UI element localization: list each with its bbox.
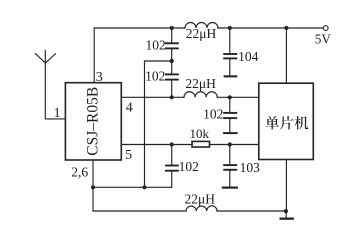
svg-text:4: 4 (126, 101, 133, 116)
capacitor C6 end bar (222, 187, 238, 189)
junction node C1-C2 (170, 59, 174, 63)
capacitor C3 104 leads (229, 28, 231, 75)
junction node gnd bus mid (142, 185, 146, 189)
junction node gnd rail MCU (284, 209, 288, 213)
capacitor C4 102 right leads (229, 97, 231, 132)
svg-text:22μH: 22μH (185, 191, 216, 206)
wire pin 2,6 drop (92, 160, 94, 211)
inductor L1 humps (185, 23, 218, 29)
antenna (35, 50, 65, 119)
wire bottom rail (93, 210, 286, 212)
capacitor C1 102 leads (171, 28, 173, 61)
junction node pin5-C6 (228, 142, 232, 146)
wire MCU ground drop (285, 160, 287, 212)
svg-text:5V: 5V (315, 32, 332, 47)
junction node pin4-C2 (170, 95, 174, 99)
inductor L3 humps (186, 206, 217, 211)
capacitor C1 plates (165, 42, 179, 44)
capacitor C3 end bar (224, 75, 238, 77)
IC U2 MCU box (259, 83, 314, 159)
junction node rail-MCU (284, 26, 288, 30)
ground bar (280, 218, 294, 220)
capacitor C2 plates (165, 73, 179, 75)
svg-text:5: 5 (125, 148, 132, 163)
svg-text:22μH: 22μH (185, 76, 216, 91)
svg-text:104: 104 (238, 49, 259, 64)
wire top 5V rail (94, 27, 323, 29)
capacitor C5 plates (165, 165, 179, 167)
capacitor C6 plates (223, 164, 237, 166)
capacitor C6 103 leads (229, 145, 231, 187)
junction node rail-C1 (170, 26, 174, 30)
svg-text:22μH: 22μH (186, 26, 217, 41)
wire mid vertical (144, 61, 146, 187)
label U2 name MCU chinese (265, 116, 308, 130)
junction node gnd bus left (91, 185, 95, 189)
ground stub (285, 211, 287, 218)
svg-text:102: 102 (145, 69, 165, 84)
inductor L2 humps (184, 92, 217, 98)
junction node pin5-C5 (170, 142, 174, 146)
junction node rail-C3 (228, 26, 232, 30)
capacitor C4 plates (223, 112, 237, 114)
wire pin5 line (121, 144, 258, 146)
svg-text:2,6: 2,6 (71, 165, 88, 180)
terminal 5V circle (323, 26, 328, 31)
capacitor C2 102 leads (171, 61, 173, 97)
wire MCU power riser (285, 28, 287, 83)
wire pin3 riser (93, 28, 95, 83)
junction node pin4-C4 (228, 95, 232, 99)
capacitor C4 end bar (223, 132, 238, 134)
wire pin4 line (121, 96, 258, 98)
svg-text:102: 102 (145, 38, 165, 53)
svg-text:1: 1 (54, 106, 61, 121)
capacitor C3 plates (223, 53, 237, 55)
resistor R1 10k body (192, 141, 210, 147)
svg-text:CSJ–R05B: CSJ–R05B (85, 87, 102, 156)
wire ground bus y187 (93, 186, 172, 188)
svg-text:103: 103 (240, 160, 261, 175)
capacitor C5 102 bottom leads (171, 145, 173, 188)
svg-text:102: 102 (203, 107, 223, 122)
svg-text:102: 102 (179, 159, 199, 174)
wire jog to cap junction (145, 60, 172, 62)
svg-text:10k: 10k (189, 126, 209, 141)
IC U1 CSJ-R05B box (65, 83, 121, 160)
svg-text:3: 3 (96, 70, 103, 85)
